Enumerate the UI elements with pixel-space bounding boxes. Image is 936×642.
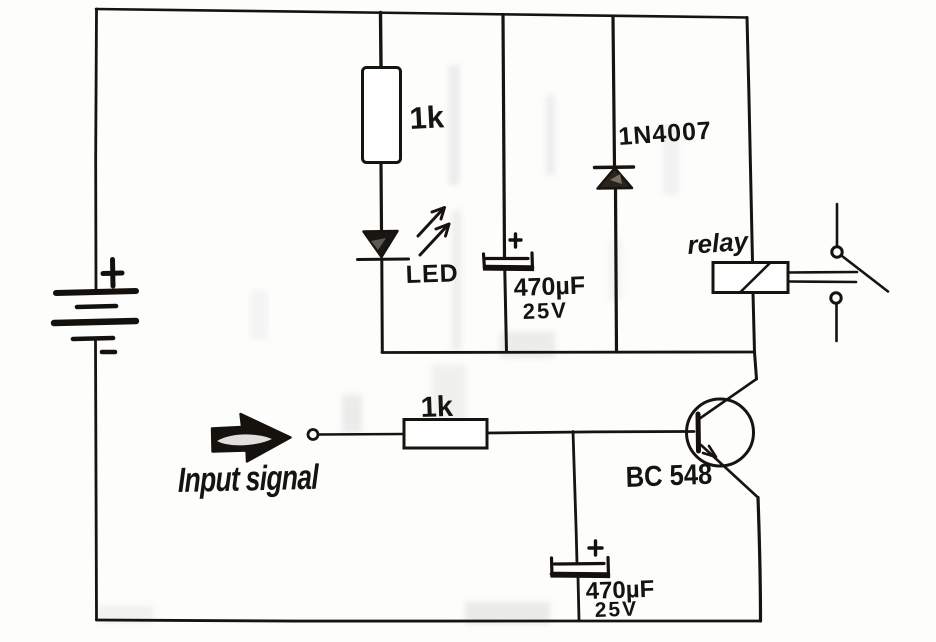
battery B1 [54,260,136,353]
wire: C1 to inner rail [505,271,507,352]
wire: relay to collector bend [753,293,757,379]
switch: upper stationary contact [836,204,839,246]
capacitor C2 [552,541,609,577]
resistor R2 [404,420,487,449]
wire: right rail top (to relay) [747,18,753,263]
wire: inner bottom rail [382,351,753,354]
diode D1 [595,167,634,189]
wire: emitter to bottom rail [758,498,761,622]
input arrow [212,414,291,462]
wire: LED to inner rail [380,259,384,352]
svg-text:BC 548: BC 548 [625,457,712,493]
wire: left rail upper (battery +) [94,9,98,292]
svg-text:1k: 1k [420,391,454,424]
wire: C1 branch from top rail [503,15,505,259]
wire: D1 to inner rail [616,189,617,353]
wire: top rail [96,9,747,18]
switch: lower contact [831,293,841,303]
wire: D1 branch from top rail [613,17,615,167]
transistor Q1 base bar [696,414,702,451]
transistor Q1 body [687,399,754,466]
svg-text:LED: LED [405,259,459,289]
LED D2 [358,231,409,260]
wire: R1 branch from top rail [379,13,383,68]
wire: R1 to LED [379,163,383,231]
svg-text:Input signal: Input signal [178,457,321,500]
wire: left rail lower (battery -) [95,340,96,620]
transistor Q1 collector lead [699,379,757,419]
wire: bottom rail [97,620,761,621]
relay K1 [713,263,788,293]
svg-text:relay: relay [686,226,750,260]
switch: movable arm [842,256,888,292]
wire: C2 to bottom rail [578,577,579,620]
capacitor C1 [484,234,533,270]
svg-text:1k: 1k [409,99,446,136]
svg-text:25V: 25V [594,597,638,621]
LED light arrows [418,208,449,256]
wire: junction down to C2 [573,432,577,564]
resistor R1 [363,68,401,163]
wire: input to R2 [319,433,405,436]
svg-text:25V: 25V [522,297,568,324]
wire: R2 to base [487,432,694,434]
relay contact feed lines [789,272,858,282]
transistor Q1 emitter lead with arrow [701,445,758,498]
input terminal node [308,430,318,440]
